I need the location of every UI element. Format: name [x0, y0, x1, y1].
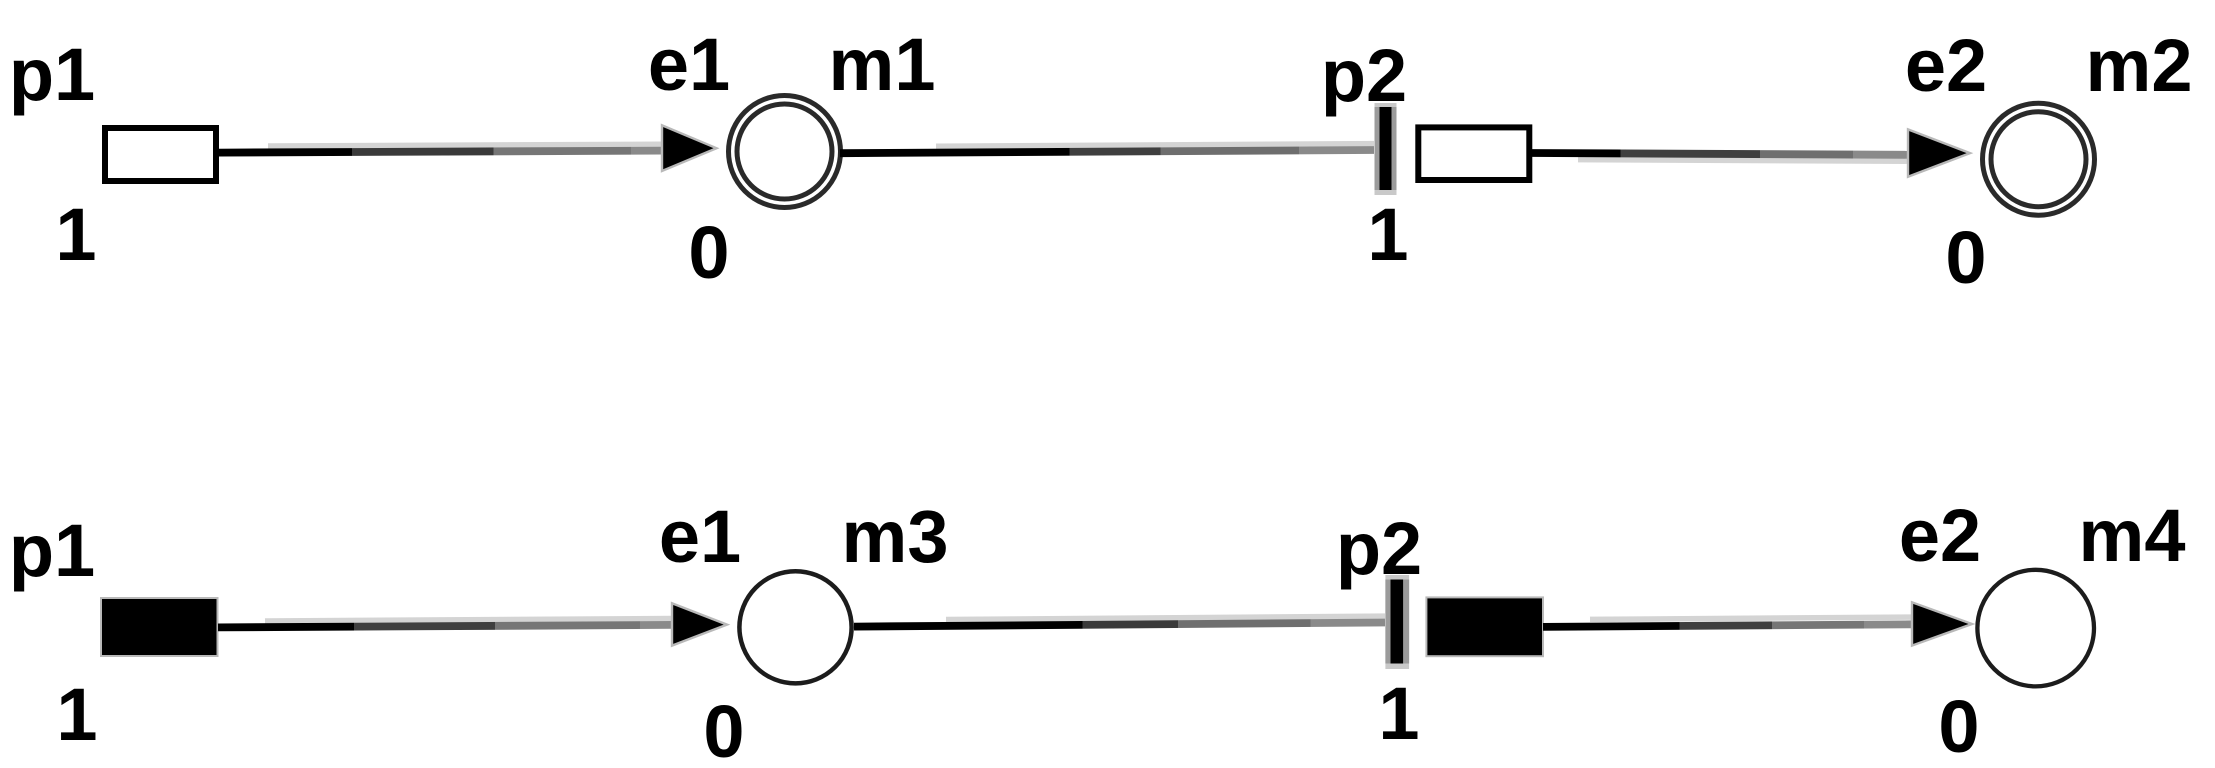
- svg-text:0: 0: [703, 690, 744, 768]
- arrowhead into e2 (top row): [1908, 129, 1970, 176]
- svg-text:e1: e1: [659, 495, 741, 578]
- event e1/m1 double circle (top row): [729, 96, 841, 208]
- place p2 bar halo (bottom row): [1385, 575, 1409, 669]
- wire e1 to p2 (top row): [840, 150, 1374, 153]
- svg-text:m1: m1: [829, 23, 936, 106]
- place p2 rectangle (bottom row, filled): [1426, 597, 1543, 656]
- wire p1 to e1 (bottom row): [218, 625, 672, 628]
- svg-text:e2: e2: [1905, 24, 1987, 107]
- svg-text:1: 1: [55, 193, 96, 276]
- svg-text:e2: e2: [1899, 494, 1981, 577]
- arrowhead into e2 (bottom row): [1912, 602, 1972, 645]
- svg-text:0: 0: [1945, 216, 1986, 299]
- svg-text:m2: m2: [2086, 24, 2193, 107]
- svg-text:1: 1: [56, 673, 97, 756]
- wire highlight e1 to p2 (top row): [936, 144, 1374, 147]
- arrowhead into e1 (top row): [662, 125, 717, 171]
- place p2 bar halo (top row): [1375, 103, 1397, 195]
- place p2 bar (top row): [1380, 107, 1392, 190]
- wire p2 to e2 (top row): [1532, 153, 1908, 155]
- svg-text:0: 0: [688, 211, 729, 294]
- svg-text:e1: e1: [648, 23, 730, 106]
- wire highlight p1 to e1 (bottom row): [265, 619, 672, 622]
- event e2/m4 single circle (bottom row): [1977, 570, 2094, 687]
- svg-text:m4: m4: [2079, 494, 2186, 577]
- place p1 rectangle (top row, hollow): [105, 128, 216, 181]
- wire highlight p2 to e2 (top row, below): [1578, 160, 1908, 162]
- svg-text:0: 0: [1938, 685, 1979, 768]
- wire p2 to e2 (bottom row): [1543, 624, 1912, 627]
- wire highlight p2 to e2 (bottom row): [1590, 617, 1912, 619]
- place p1 rectangle (bottom row, filled): [101, 598, 218, 656]
- svg-text:p2: p2: [1321, 34, 1407, 117]
- event e2/m2 double circle (top row): [1983, 103, 2095, 215]
- svg-text:p1: p1: [9, 33, 95, 116]
- place p2 rectangle (top row, hollow): [1418, 127, 1529, 180]
- wire p1 to e1 (top row): [219, 151, 662, 153]
- place p2 bar (bottom row): [1391, 580, 1404, 664]
- svg-text:p2: p2: [1336, 507, 1422, 590]
- wire highlight e1 to p2 (bottom row): [946, 616, 1385, 619]
- svg-text:1: 1: [1367, 193, 1408, 276]
- svg-text:p1: p1: [9, 509, 95, 592]
- svg-text:1: 1: [1378, 672, 1419, 755]
- svg-text:m3: m3: [842, 495, 949, 578]
- wire e1 to p2 (bottom row): [854, 623, 1385, 627]
- arrowhead into e1 (bottom row): [672, 603, 727, 645]
- wire highlight p1 to e1 (top row): [268, 144, 662, 146]
- event e1/m3 single circle (bottom row): [739, 571, 851, 683]
